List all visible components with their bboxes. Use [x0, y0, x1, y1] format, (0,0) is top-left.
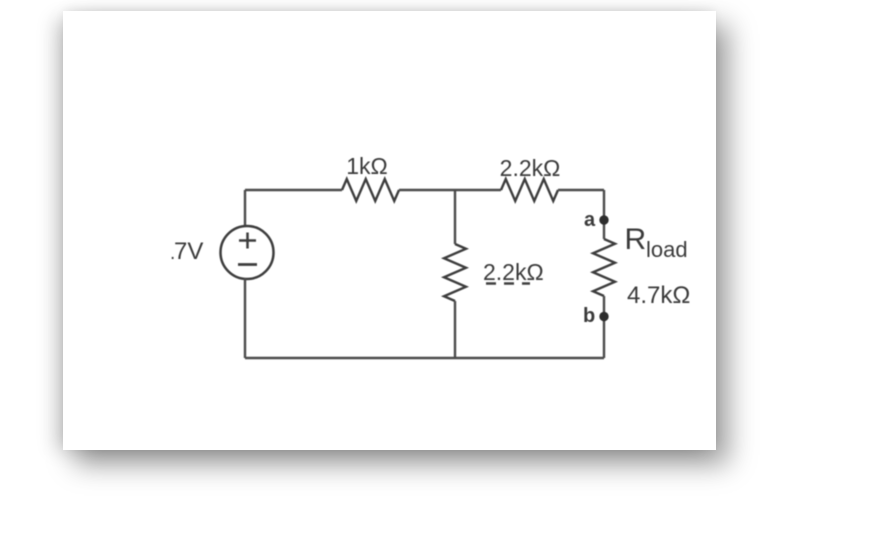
svg-text:a: a — [584, 209, 596, 231]
svg-text:R: R — [625, 223, 647, 256]
node b label — [583, 305, 595, 327]
source value label 7V — [170, 238, 203, 265]
page sheet with drop shadow — [63, 11, 716, 450]
value label 2.2kOhm top — [500, 155, 561, 181]
value label 1kOhm — [346, 153, 388, 179]
wire middle vertical lower — [454, 301, 456, 358]
dashed underline under middle label — [486, 282, 530, 285]
value label 4.7kOhm — [627, 282, 690, 309]
svg-text:7V: 7V — [174, 238, 203, 265]
svg-text:b: b — [583, 305, 595, 327]
wire bottom segment — [245, 357, 604, 359]
voltage source V1 circle — [221, 226, 274, 279]
resistor R3 2.2k zigzag vertical middle — [444, 244, 466, 301]
resistor Rload 4.7k zigzag vertical right — [593, 239, 615, 296]
wire right vertical upper — [603, 190, 605, 239]
value label 2.2kOhm middle — [483, 259, 544, 285]
wire right vertical lower — [603, 296, 605, 358]
svg-text:.: . — [170, 243, 175, 264]
voltage source minus sign — [238, 263, 257, 266]
wire top-right segment — [558, 189, 604, 191]
svg-text:1kΩ: 1kΩ — [346, 153, 388, 179]
svg-text:4.7kΩ: 4.7kΩ — [627, 282, 690, 309]
voltage source plus sign — [239, 233, 256, 249]
svg-text:2.2kΩ: 2.2kΩ — [500, 155, 561, 181]
svg-text:2.2kΩ: 2.2kΩ — [483, 259, 544, 285]
wire top-left segment — [245, 189, 342, 191]
node a dot — [599, 215, 608, 224]
svg-text:load: load — [646, 237, 688, 262]
wire middle vertical upper — [454, 190, 456, 244]
wire left vertical upper — [244, 190, 246, 226]
wire top-middle segment — [399, 189, 501, 191]
resistor R1 1k zigzag — [342, 179, 399, 201]
resistor R2 2.2k zigzag top — [501, 179, 558, 201]
node b dot — [599, 312, 608, 321]
wire left vertical lower — [244, 278, 246, 358]
label Rload — [625, 223, 688, 262]
node a label — [584, 209, 596, 231]
